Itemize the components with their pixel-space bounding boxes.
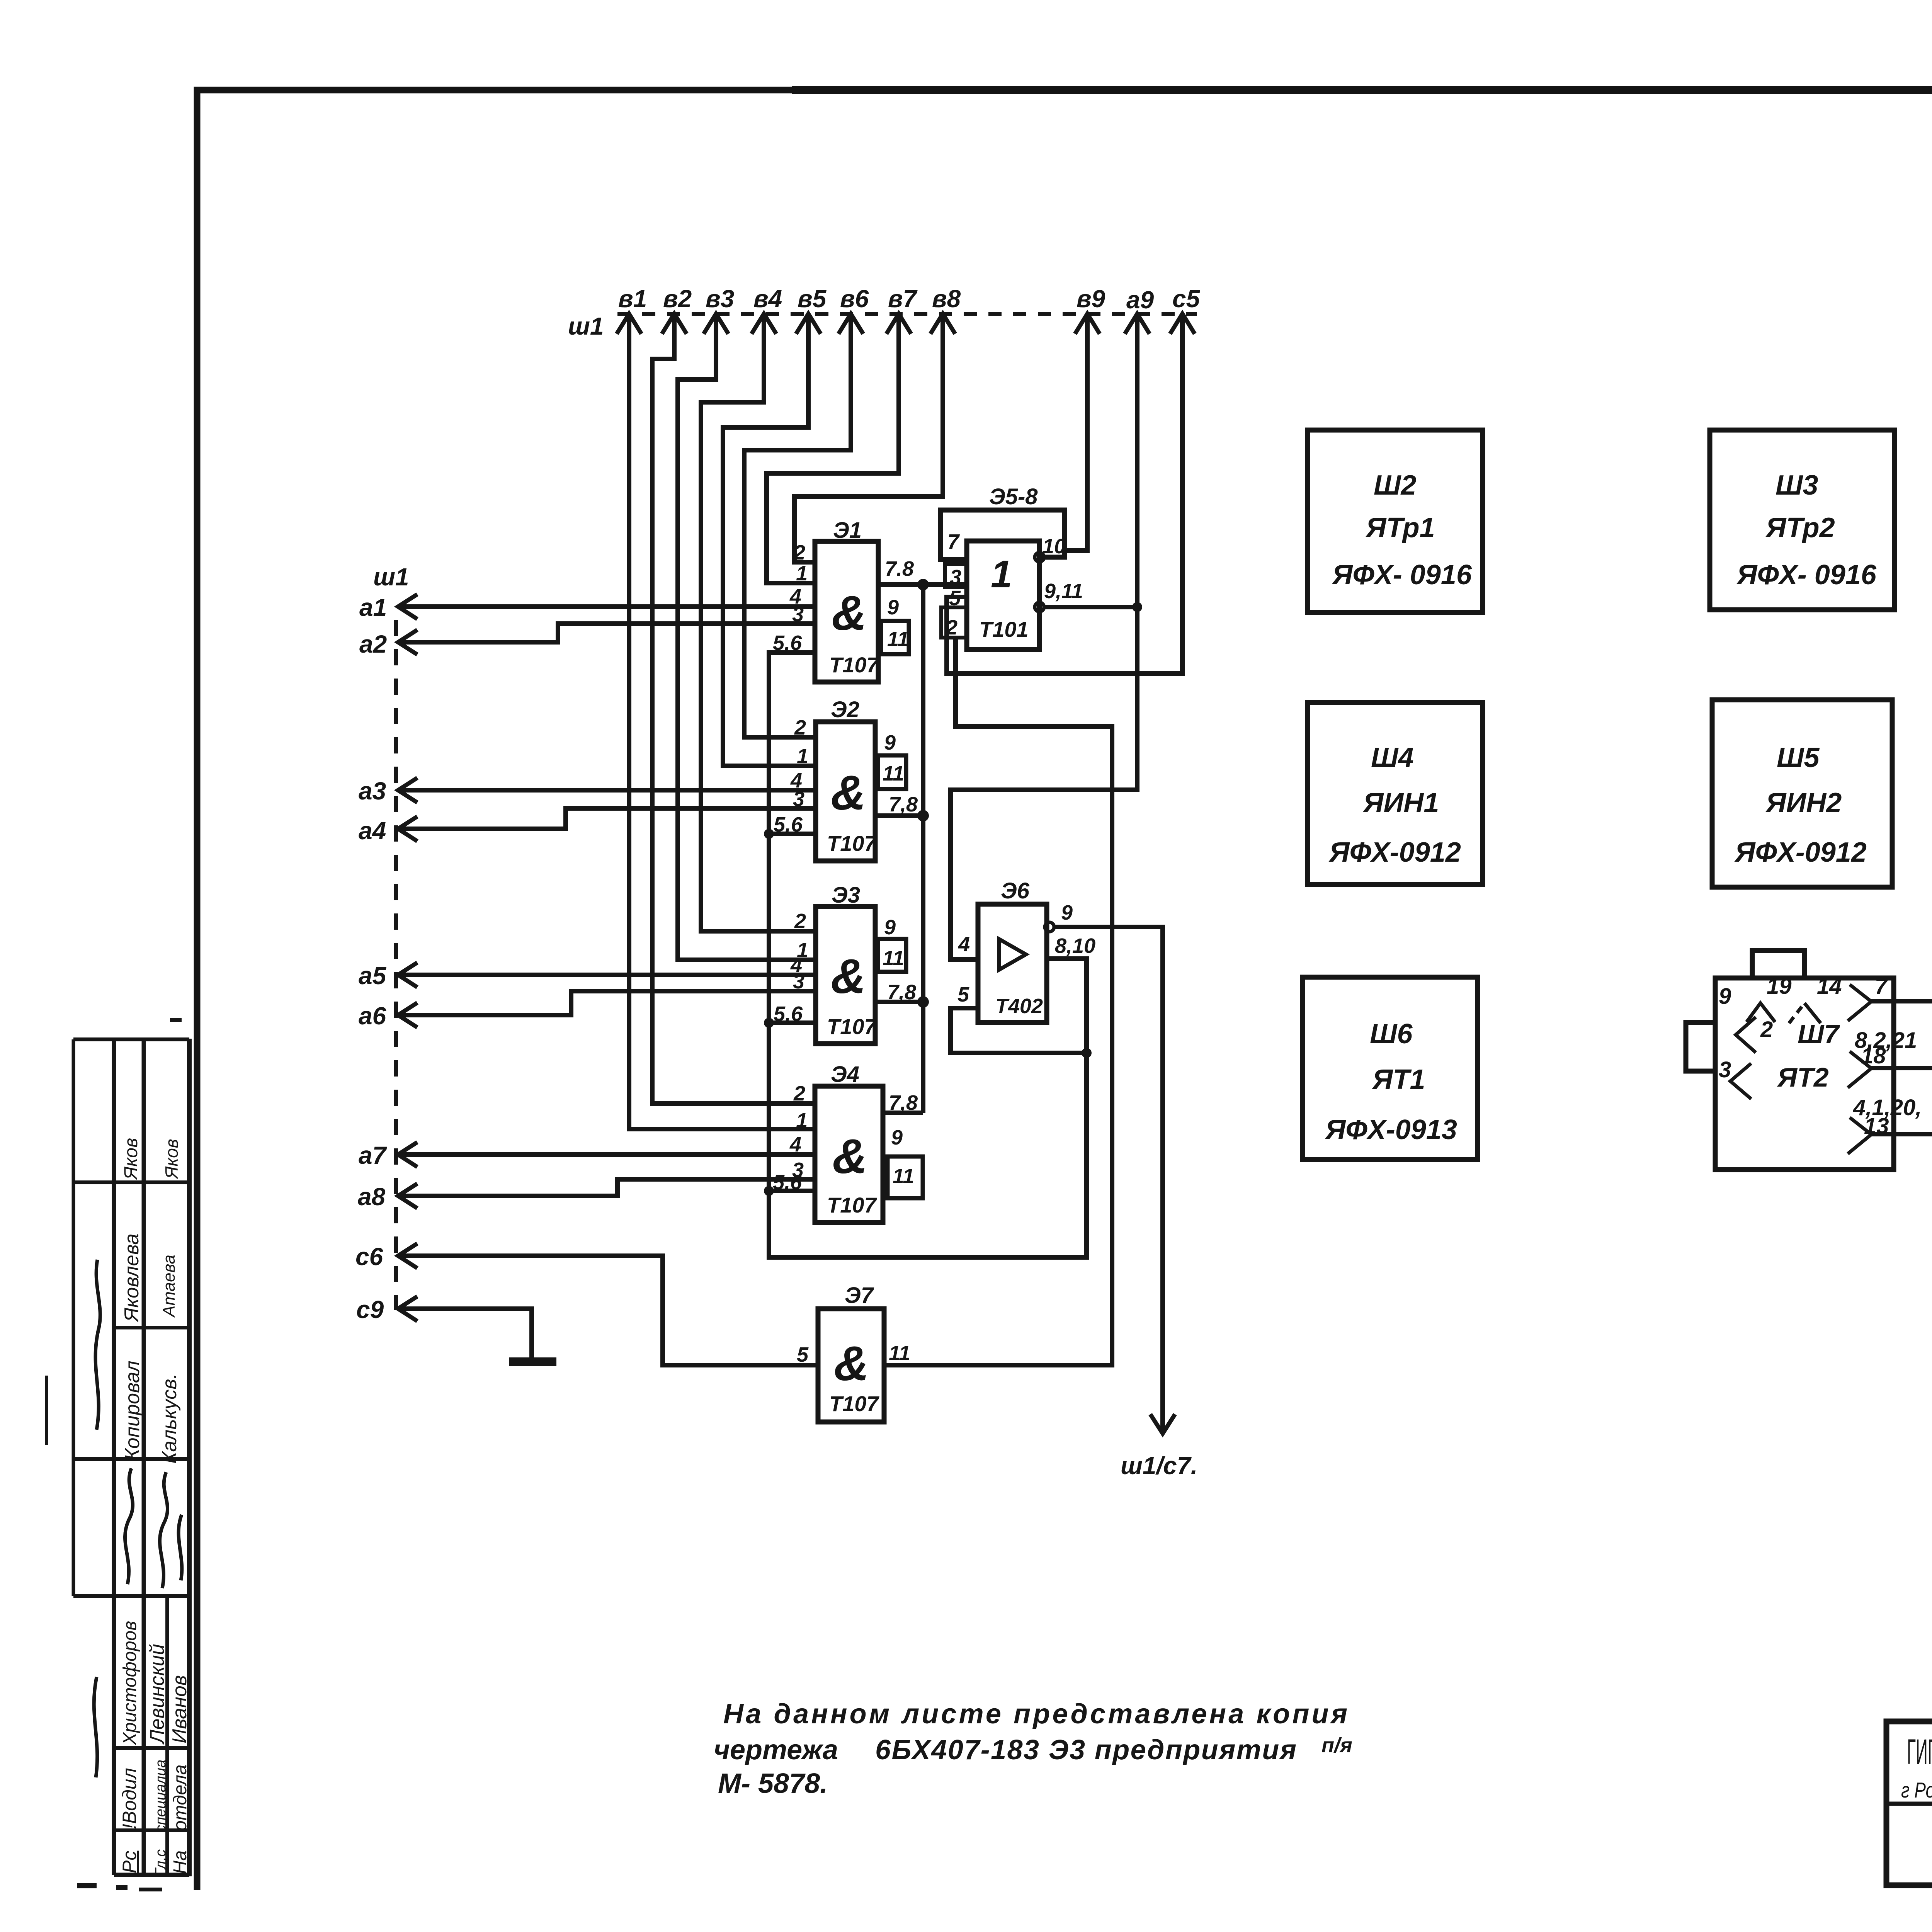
svg-text:ЯИН1: ЯИН1 <box>1362 787 1439 818</box>
svg-text:ЯФХ-0913: ЯФХ-0913 <box>1325 1114 1457 1145</box>
svg-text:ЯТр2: ЯТр2 <box>1765 512 1835 543</box>
svg-text:Ш6: Ш6 <box>1370 1019 1413 1049</box>
svg-text:2: 2 <box>793 1082 805 1105</box>
svg-text:Иванов: Иванов <box>168 1675 191 1743</box>
svg-text:Э2: Э2 <box>831 697 859 722</box>
svg-text:Т107: Т107 <box>829 1391 879 1416</box>
svg-text:в2: в2 <box>663 285 692 313</box>
svg-text:ЯИН2: ЯИН2 <box>1765 787 1842 818</box>
svg-text:11: 11 <box>883 947 904 970</box>
svg-text:М- 5878.: М- 5878. <box>718 1768 828 1799</box>
svg-text:а6: а6 <box>359 1002 386 1030</box>
svg-text:с9: с9 <box>356 1296 384 1323</box>
svg-text:5,6: 5,6 <box>773 631 802 655</box>
svg-text:2: 2 <box>1760 1017 1773 1042</box>
svg-text:Ш3: Ш3 <box>1776 470 1818 501</box>
svg-text:Копировал: Копировал <box>121 1361 144 1461</box>
svg-text:9: 9 <box>884 916 896 939</box>
svg-text:а7: а7 <box>359 1141 388 1169</box>
svg-text:Т101: Т101 <box>979 617 1029 641</box>
svg-text:в6: в6 <box>840 285 869 313</box>
svg-text:5: 5 <box>797 1343 809 1366</box>
svg-text:Левинский: Левинский <box>146 1644 168 1745</box>
svg-text:Ш5: Ш5 <box>1777 742 1820 773</box>
svg-text:ЯТр1: ЯТр1 <box>1365 512 1435 543</box>
svg-text:1: 1 <box>991 553 1012 596</box>
svg-text:&: & <box>831 949 866 1003</box>
svg-text:&: & <box>832 586 867 640</box>
svg-text:1: 1 <box>796 562 808 585</box>
svg-text:2: 2 <box>794 910 806 933</box>
svg-text:Т107: Т107 <box>827 1193 877 1217</box>
svg-text:Рс: Рс <box>119 1851 140 1873</box>
svg-text:На: На <box>170 1850 190 1874</box>
svg-text:Ш4: Ш4 <box>1371 742 1414 773</box>
svg-text:9: 9 <box>884 731 896 754</box>
svg-text:7: 7 <box>1875 974 1888 999</box>
svg-text:3: 3 <box>1719 1057 1731 1082</box>
svg-text:10: 10 <box>1043 535 1066 558</box>
svg-text:ЯФХ-0912: ЯФХ-0912 <box>1328 837 1461 868</box>
svg-text:1: 1 <box>797 745 808 768</box>
svg-text:3: 3 <box>793 970 804 993</box>
svg-text:7,8: 7,8 <box>889 793 918 816</box>
svg-text:в1: в1 <box>618 285 647 313</box>
svg-text:&: & <box>831 765 866 820</box>
svg-text:4: 4 <box>958 933 970 956</box>
svg-text:11: 11 <box>893 1165 914 1188</box>
svg-text:2: 2 <box>946 616 957 639</box>
svg-text:Калькусв.: Калькусв. <box>158 1373 181 1464</box>
svg-text:&: & <box>834 1336 869 1391</box>
svg-text:7.8: 7.8 <box>885 557 914 580</box>
svg-text:11: 11 <box>883 762 904 785</box>
svg-text:а5: а5 <box>359 962 387 990</box>
svg-text:а9: а9 <box>1126 286 1154 314</box>
svg-text:Христофоров: Христофоров <box>120 1621 140 1745</box>
svg-text:ш1: ш1 <box>373 563 409 591</box>
svg-text:с6: с6 <box>355 1243 383 1270</box>
svg-text:Э1: Э1 <box>833 518 862 543</box>
svg-text:ш1: ш1 <box>568 312 604 340</box>
svg-text:Ш7: Ш7 <box>1798 1019 1840 1049</box>
svg-text:Т402: Т402 <box>995 995 1043 1018</box>
svg-text:Т107: Т107 <box>827 1014 877 1039</box>
svg-text:в4: в4 <box>753 285 782 313</box>
svg-text:а2: а2 <box>359 630 387 658</box>
svg-text:в3: в3 <box>706 285 734 313</box>
svg-text:Атаева: Атаева <box>160 1255 179 1318</box>
svg-text:3: 3 <box>793 787 804 811</box>
svg-text:13: 13 <box>1864 1114 1889 1139</box>
svg-text:ш1/с7.: ш1/с7. <box>1121 1452 1197 1480</box>
svg-text:14: 14 <box>1817 974 1842 999</box>
svg-text:18: 18 <box>1861 1043 1886 1068</box>
svg-text:19: 19 <box>1767 974 1792 999</box>
svg-text:1: 1 <box>796 1109 808 1132</box>
svg-text:в9: в9 <box>1077 285 1105 313</box>
svg-text:ГИПРОСТРОЙДОРМАШ: ГИПРОСТРОЙДОРМАШ <box>1907 1731 1932 1772</box>
svg-text:9,11: 9,11 <box>1044 580 1083 603</box>
svg-text:9: 9 <box>887 596 899 619</box>
svg-text:а3: а3 <box>359 777 386 805</box>
svg-text:8,10: 8,10 <box>1055 934 1095 957</box>
svg-text:Э7: Э7 <box>845 1283 874 1308</box>
svg-text:11: 11 <box>887 628 909 651</box>
svg-text:7,8: 7,8 <box>889 1091 918 1114</box>
svg-text:5: 5 <box>949 587 961 610</box>
svg-text:с5: с5 <box>1172 285 1201 313</box>
svg-text:в5: в5 <box>798 285 827 313</box>
svg-text:9: 9 <box>891 1126 903 1149</box>
svg-text:9: 9 <box>1061 901 1073 924</box>
svg-text:Ш2: Ш2 <box>1374 470 1417 501</box>
svg-text:а1: а1 <box>359 594 387 621</box>
svg-text:Э3: Э3 <box>832 883 860 908</box>
svg-text:Гл.с: Гл.с <box>153 1849 169 1876</box>
svg-text:ЯФХ- 0916: ЯФХ- 0916 <box>1736 560 1877 590</box>
svg-text:2: 2 <box>793 541 805 564</box>
svg-text:Э5-8: Э5-8 <box>989 484 1038 509</box>
svg-text:7,8: 7,8 <box>887 981 916 1004</box>
svg-text:Т107: Т107 <box>829 653 879 677</box>
svg-text:в8: в8 <box>932 285 961 313</box>
svg-text:9: 9 <box>1719 984 1731 1009</box>
svg-text:11: 11 <box>889 1342 910 1365</box>
svg-text:4: 4 <box>789 1133 801 1156</box>
svg-text:ЯФХ-0912: ЯФХ-0912 <box>1734 837 1867 868</box>
svg-text:!Водил: !Водил <box>119 1768 140 1829</box>
svg-text:ЯТ1: ЯТ1 <box>1372 1064 1425 1095</box>
svg-text:5,6: 5,6 <box>773 1171 802 1194</box>
svg-text:5: 5 <box>957 983 969 1006</box>
svg-text:Э6: Э6 <box>1001 878 1030 903</box>
svg-text:6БХ407-183 Э3 предприятия: 6БХ407-183 Э3 предприятия <box>875 1735 1296 1765</box>
svg-text:3: 3 <box>950 566 961 589</box>
svg-text:ЯФХ- 0916: ЯФХ- 0916 <box>1332 560 1472 590</box>
svg-text:Яков: Яков <box>121 1138 141 1180</box>
svg-text:Яковлева: Яковлева <box>121 1234 143 1323</box>
svg-text:Т107: Т107 <box>827 831 877 855</box>
svg-text:специалиа: специалиа <box>153 1760 169 1832</box>
svg-text:Э4: Э4 <box>831 1062 859 1087</box>
svg-text:3: 3 <box>792 603 804 626</box>
svg-text:п/я: п/я <box>1321 1734 1352 1757</box>
svg-text:в7: в7 <box>888 285 918 313</box>
svg-text:5,6: 5,6 <box>774 813 803 836</box>
svg-text:7: 7 <box>947 530 960 553</box>
svg-text:5,6: 5,6 <box>774 1002 803 1026</box>
svg-text:&: & <box>832 1129 867 1184</box>
svg-text:На данном листе представле: На данном листе представлена копия <box>723 1699 1347 1730</box>
svg-text:чертежа: чертежа <box>714 1735 838 1765</box>
svg-text:Яков: Яков <box>162 1139 182 1180</box>
svg-text:г Ростов-на-Дону 1976г: г Ростов-на-Дону 1976г <box>1901 1778 1932 1802</box>
svg-text:отдела: отдела <box>170 1764 190 1831</box>
svg-text:ЯТ2: ЯТ2 <box>1777 1062 1829 1092</box>
svg-text:2: 2 <box>794 716 806 739</box>
svg-text:а8: а8 <box>358 1183 386 1211</box>
svg-text:а4: а4 <box>359 817 386 845</box>
